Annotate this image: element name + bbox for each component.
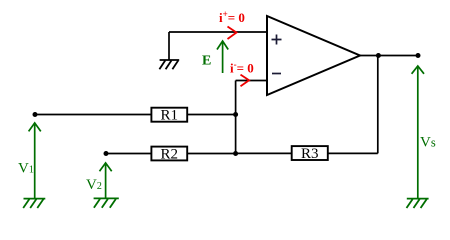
svg-text:i+= 0: i+= 0 [219, 9, 245, 25]
ground V2 (green) [94, 198, 119, 207]
svg-text:R2: R2 [161, 146, 179, 162]
node: output junction [376, 53, 381, 58]
wire: V2 node to R2 [106, 153, 151, 155]
voltage arrow V2 [100, 163, 112, 198]
svg-text:i-= 0: i-= 0 [230, 60, 254, 76]
wire: R2 to inverting column [187, 153, 235, 155]
voltage arrow Vs [412, 66, 424, 199]
op-amp U1 [267, 16, 360, 95]
voltage arrow V1 [29, 123, 41, 199]
wire: non-inverting input horizontal [169, 31, 267, 33]
wire: R1 to inverting column [187, 114, 235, 116]
wire: column to R3 [236, 152, 292, 154]
wire: inverting node vertical column [235, 81, 237, 154]
svg-text:Vs: Vs [420, 134, 436, 150]
ground Vs (green) [407, 199, 429, 208]
voltage arrow E [217, 41, 228, 73]
svg-text:V1: V1 [18, 161, 34, 177]
ground (top, black) [159, 60, 179, 69]
svg-text:E: E [202, 53, 211, 68]
resistor R3 [292, 146, 328, 162]
wire: V1 node to R1 [35, 114, 151, 116]
label Vs [420, 134, 436, 150]
node: V2 input [104, 151, 109, 156]
node: inverting junction at R2/R3 [233, 151, 238, 156]
resistor R1 [151, 108, 187, 124]
node: inverting junction at R1 [233, 112, 238, 117]
wire: drop to top ground [168, 32, 170, 60]
svg-text:R1: R1 [161, 108, 179, 124]
svg-text:R3: R3 [301, 146, 319, 162]
resistor R2 [151, 146, 187, 162]
current arrow i+ [228, 27, 237, 40]
label V1 [18, 161, 34, 177]
node: output end [416, 53, 421, 58]
ground V1 (green) [23, 199, 45, 208]
wire: op-amp output horizontal [360, 55, 418, 57]
label E [202, 53, 211, 68]
label V2 [86, 177, 102, 193]
current arrow i- [241, 75, 250, 87]
wire: inverting input horizontal [236, 80, 267, 82]
wire: feedback vertical up to output [377, 56, 379, 154]
label i-=0 [230, 60, 254, 76]
node: V1 input [33, 112, 38, 117]
wire: R3 to feedback corner [328, 152, 378, 154]
label i+=0 [219, 9, 245, 25]
svg-text:V2: V2 [86, 177, 102, 193]
